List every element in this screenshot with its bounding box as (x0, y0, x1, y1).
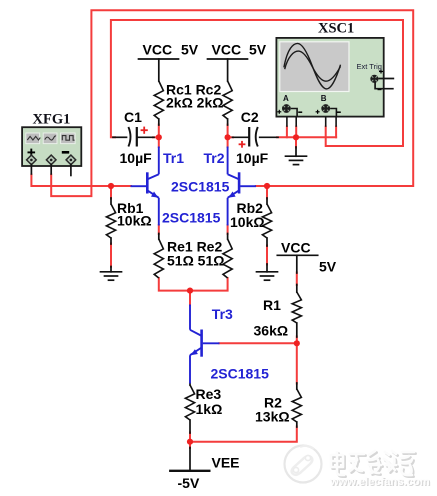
wire scope A- pin stub (295, 127, 297, 138)
svg-text:Tr3: Tr3 (212, 306, 233, 322)
svg-text:Tr1: Tr1 (163, 150, 184, 166)
svg-text:10µF: 10µF (236, 150, 269, 166)
wire C2 right to scope A+ (277, 127, 287, 138)
node Tr2 base / Rb2 / bus (264, 183, 270, 189)
wire Tr3 base to R1/R2 node (219, 342, 296, 344)
svg-text:XFG1: XFG1 (33, 112, 71, 128)
transistor Tr2 (228, 147, 256, 226)
svg-text:VCC: VCC (143, 42, 173, 58)
svg-text:C1: C1 (124, 109, 142, 125)
resistor Rb2 (262, 204, 271, 238)
wire scope B- pin stub (335, 127, 337, 138)
svg-text:-5V: -5V (178, 475, 200, 491)
resistor Rc2 leads (227, 119, 229, 125)
ground below Rb2 (266, 264, 268, 272)
resistor Rb1 leads (110, 198, 112, 204)
wire outer loop: XFG1 COM up over top to Tr2 base bus (51, 10, 413, 196)
resistor Re2 (223, 239, 232, 278)
resistor Rc1 (154, 81, 163, 119)
wire Tr1 emitter to Re1 (158, 225, 160, 234)
svg-text:51Ω 51Ω: 51Ω 51Ω (167, 253, 224, 269)
svg-text:36kΩ: 36kΩ (254, 323, 289, 339)
svg-text:5V: 5V (319, 259, 337, 275)
capacitor C1 right wire (137, 136, 154, 138)
svg-text:1kΩ: 1kΩ (196, 401, 223, 417)
resistor Rb1 (106, 204, 115, 238)
svg-text:2kΩ 2kΩ: 2kΩ 2kΩ (166, 95, 223, 111)
svg-text:VCC: VCC (212, 42, 242, 58)
svg-text:10µF: 10µF (120, 150, 153, 166)
wire scope ground stub (295, 137, 297, 147)
wire scope A- B- ground bus (287, 136, 336, 138)
wire inner loop: C1 left plate up over top to scope B+ (111, 20, 403, 146)
wire Ext Trig stubs (378, 78, 394, 80)
svg-text:XSC1: XSC1 (318, 21, 354, 37)
resistor Re1 (154, 239, 163, 278)
node Tr1 collector / C1+ (156, 134, 162, 140)
svg-text:10kΩ: 10kΩ (230, 214, 265, 230)
wire node C2/Rc2/Tr2 collector vertical (227, 125, 229, 147)
svg-text:R1: R1 (263, 297, 281, 313)
resistor Re2 leads (227, 234, 229, 240)
wire Rb2 bottom to ground (266, 246, 268, 265)
resistor Rb2 leads (266, 198, 268, 204)
resistor Rc1 leads (158, 119, 160, 125)
wire C1 right plate to node (153, 136, 159, 138)
svg-text:C2: C2 (241, 109, 259, 125)
ground below Rb1 (110, 267, 112, 272)
node Tr1 base / Rb1 / XFG1+ (108, 183, 114, 189)
wire VCC right to R1 (296, 273, 298, 286)
svg-text:5V: 5V (249, 42, 267, 58)
power VCC bar 2 (208, 58, 248, 60)
node Re1/Re2/Tr3 collector (187, 288, 193, 294)
resistor Re3 leads (189, 383, 191, 385)
ground below scope (295, 147, 297, 156)
resistor R2 leads (296, 383, 298, 389)
capacitor C2 right wire (260, 136, 278, 138)
watermark text www.elecfans.com (329, 476, 431, 489)
resistor Re1 leads (158, 234, 160, 240)
capacitor C2 plus mark (239, 143, 246, 145)
power VCC bar 1 (139, 58, 179, 60)
wire node C1/Rc1/Tr1 collector vertical (158, 125, 160, 147)
capacitor C1 left wire (113, 136, 127, 138)
transistor Tr1 (131, 147, 159, 226)
wire Rb1 bottom to ground (110, 244, 112, 267)
power VEE bar (170, 470, 209, 472)
svg-text:5V: 5V (181, 42, 199, 58)
capacitor C1 plates (128, 127, 257, 147)
svg-text:13kΩ: 13kΩ (255, 409, 290, 425)
node Re3 / R2 / VEE (187, 439, 193, 445)
capacitor C2 plates (248, 127, 250, 147)
wire Re3 bottom to VEE node (189, 433, 191, 449)
wire Re1 Re2 bottoms to common node (159, 278, 228, 291)
svg-text:2SC1815: 2SC1815 (162, 210, 221, 226)
capacitor C1 plus mark (141, 127, 246, 148)
svg-text:Re3: Re3 (196, 386, 222, 402)
node Tr2 collector / C2 (225, 134, 231, 140)
svg-text:VEE: VEE (212, 455, 240, 471)
svg-text:2SC1815: 2SC1815 (211, 366, 270, 382)
power VCC bar right (277, 254, 317, 256)
wire XFG1 plus to Tr1 base node (31, 175, 131, 186)
oscilloscope XSC1 (276, 38, 394, 127)
resistor Rc2 (223, 81, 232, 119)
svg-text:VCC: VCC (281, 240, 311, 256)
watermark elecfans logo (285, 446, 322, 483)
svg-text:Ext Trig: Ext Trig (357, 62, 382, 71)
watermark text dianzifashaoyou (331, 451, 416, 477)
node scope ground (293, 134, 299, 140)
node Tr3 base / R1 / R2 (294, 340, 300, 346)
transistor Tr3 (190, 305, 220, 384)
wire common node down to Tr3 collector (189, 291, 191, 305)
wire Tr2 emitter to Re2 (227, 225, 229, 234)
wire Rb1 top red stub (110, 186, 112, 199)
wire C2 left plate to node (228, 136, 233, 138)
resistor R1 leads (296, 285, 298, 293)
svg-text:www.elecfans.com: www.elecfans.com (329, 476, 430, 488)
wire Rb2 top red stub (266, 186, 268, 199)
svg-text:B: B (321, 94, 327, 103)
svg-text:Tr2: Tr2 (204, 150, 225, 166)
function generator XFG1 (22, 127, 81, 176)
wire R1 bottom through base node to R2 (296, 337, 298, 384)
capacitor C2 left wire (233, 136, 249, 138)
resistor R1 (292, 292, 301, 323)
svg-text:2SC1815: 2SC1815 (171, 179, 230, 195)
wire R2 bottom to VEE node (190, 427, 297, 442)
svg-text:A: A (283, 94, 289, 103)
svg-text:10kΩ: 10kΩ (117, 213, 152, 229)
resistor R2 (292, 389, 301, 422)
resistor Re3 (185, 385, 194, 420)
